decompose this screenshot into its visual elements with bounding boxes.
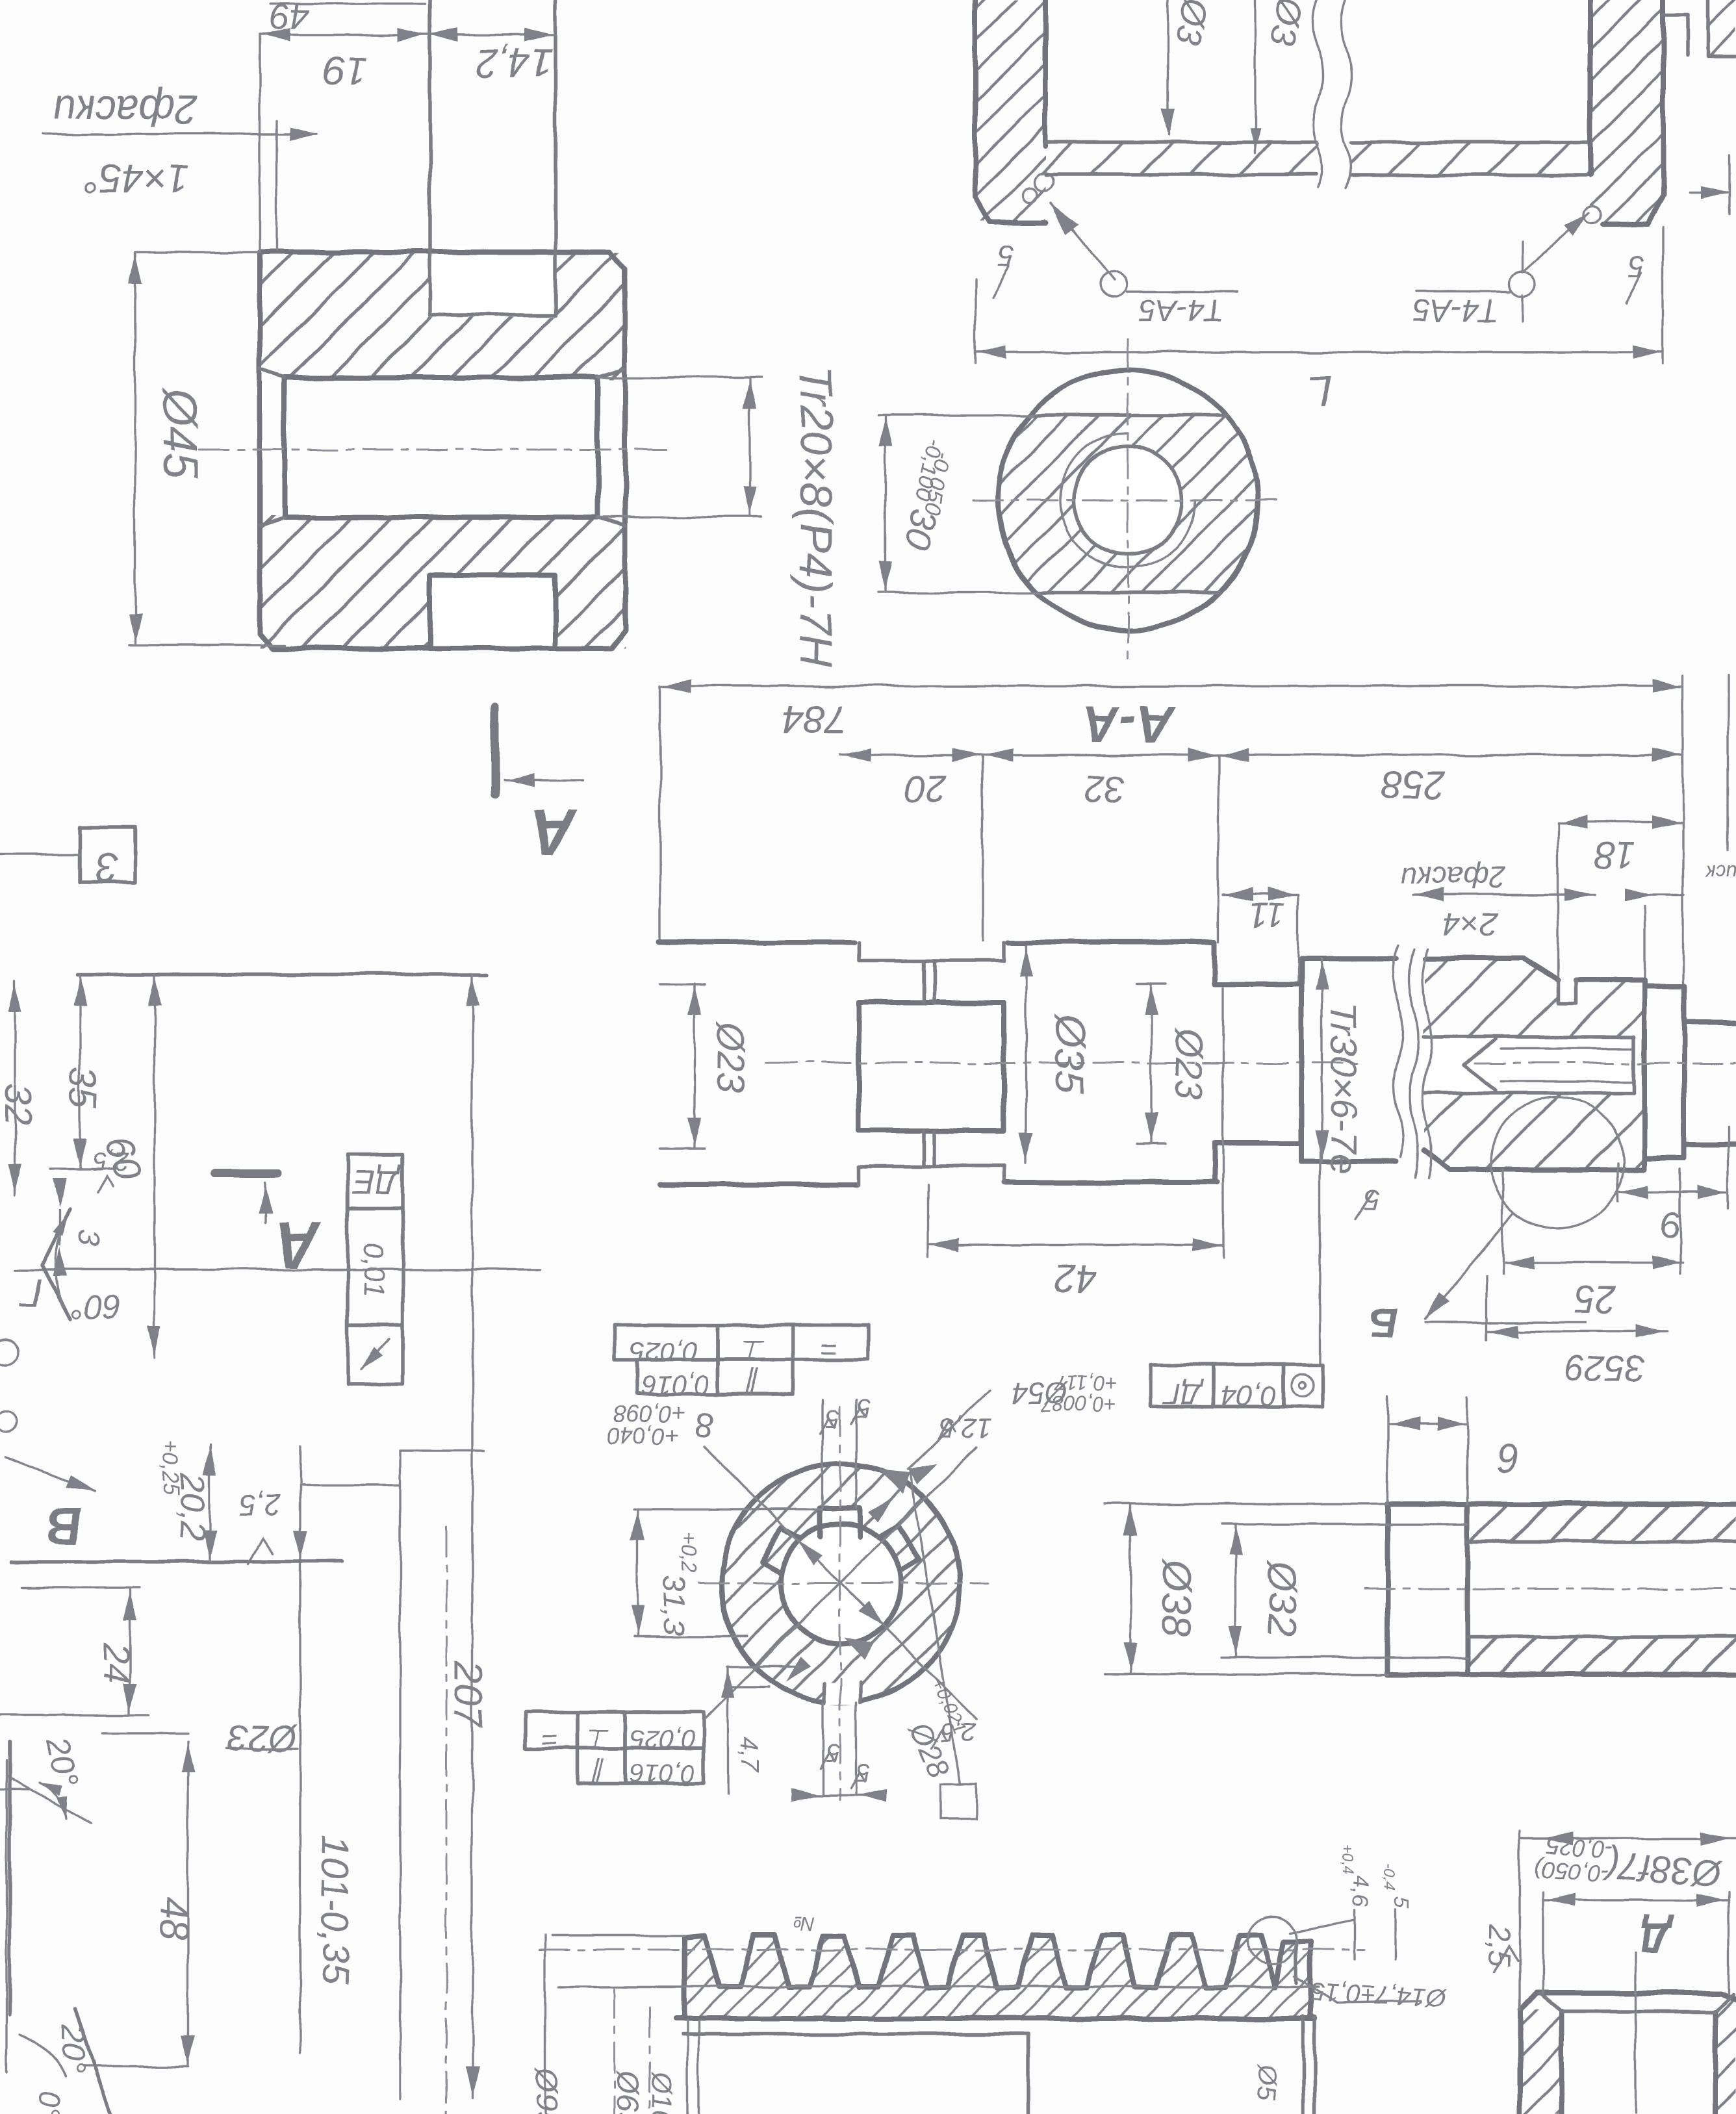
thread relief in nut	[1632, 1037, 1636, 1093]
svg-text:L: L	[1308, 366, 1333, 416]
svg-text:+0,040: +0,040	[607, 1423, 679, 1449]
svg-text:4,7: 4,7	[735, 1736, 763, 1773]
svg-text:=: =	[821, 1332, 838, 1366]
bushing centerline	[1634, 1954, 1636, 2114]
shaft neck lines	[859, 959, 1004, 963]
svg-text:0,016: 0,016	[641, 1370, 710, 1401]
dimension 9	[1618, 1191, 1728, 1193]
svg-text:5: 5	[825, 1738, 840, 1767]
svg-text:Ø63: Ø63	[610, 2069, 645, 2114]
dimension D23 (right portion)	[1150, 984, 1152, 1143]
screw channel inside nut	[1424, 1037, 1634, 1093]
dimension 30 h (disc)	[884, 415, 886, 592]
svg-text:A-A: A-A	[1082, 696, 1175, 754]
svg-text:14,2: 14,2	[476, 40, 554, 85]
svg-text:5: 5	[856, 1758, 871, 1787]
rod outline	[1388, 1501, 1736, 1507]
tolerance frame DE (vertical)	[348, 1154, 403, 1208]
leader D54 upper right	[908, 1390, 989, 1470]
svg-text:Ø38: Ø38	[1154, 1559, 1199, 1636]
leader circle T4-A5 left	[1100, 271, 1126, 297]
solid arrow on bore bottom	[845, 1637, 874, 1661]
part: rack with trapezoidal teeth (hatched)	[684, 1935, 1315, 2018]
svg-text:35: 35	[62, 1067, 104, 1109]
svg-text:20: 20	[904, 767, 947, 809]
shaft right step to D23	[1212, 942, 1217, 984]
svg-text:+0,117: +0,117	[1054, 1371, 1118, 1395]
dimension D45 (left)	[134, 252, 136, 645]
collar step right of nut	[1644, 986, 1684, 1158]
svg-text:11: 11	[1249, 896, 1285, 935]
centerline of bushing bore	[199, 449, 669, 451]
dimension 207 (vertical)	[471, 974, 473, 2099]
dimension 3 (small)	[58, 1210, 60, 1245]
svg-text:Ø32: Ø32	[1259, 1559, 1304, 1636]
section plane arrow A (upper)	[491, 707, 500, 795]
nut break wavy left edge	[1409, 949, 1419, 1178]
dimension Tr30x6-7e arrows	[1320, 959, 1322, 1162]
svg-text:⊥: ⊥	[741, 1334, 766, 1366]
fillet circle right	[1585, 206, 1602, 223]
part: end view disc with bore (hatched circle)	[994, 415, 1262, 593]
svg-text:2фаски: 2фаски	[1401, 861, 1505, 895]
svg-text:1×45°: 1×45°	[83, 156, 190, 201]
inner bore extension line	[1254, 0, 1256, 153]
svg-text:-0,050): -0,050)	[1534, 1855, 1610, 1887]
hub centerlines	[698, 1583, 988, 1585]
svg-text:=: =	[541, 1724, 557, 1755]
collar block on shaft	[859, 1002, 1004, 1130]
part: bushing cross-section (top-left), hatched body	[260, 252, 625, 379]
svg-text:ДЕ: ДЕ	[351, 1163, 402, 1201]
hub keyway top	[820, 1508, 860, 1536]
tube wall hatched strip	[1033, 142, 1319, 175]
dimension 42	[928, 1243, 1223, 1245]
svg-text:4,6: 4,6	[1347, 1876, 1372, 1907]
svg-text:5: 5	[1389, 1896, 1414, 1909]
left part top edge line	[77, 973, 487, 976]
tolerance frame lower (0,025 / 0,016)	[525, 1712, 577, 1748]
dimension 19 / 14,2 (top)	[260, 34, 555, 36]
svg-text:+0,0087: +0,0087	[1040, 1392, 1117, 1416]
dimension 18	[1558, 821, 1683, 823]
dimension D38	[1129, 1504, 1131, 1674]
svg-text:Т4-А5: Т4-А5	[1412, 293, 1498, 327]
svg-text:784: 784	[782, 698, 847, 741]
svg-text:0,025: 0,025	[630, 1336, 698, 1367]
dimension 24	[129, 1589, 131, 1714]
svg-text:207: 207	[446, 1660, 491, 1729]
svg-text:ДГ: ДГ	[1162, 1378, 1203, 1410]
dimension row 20 / 32 / 258	[840, 754, 1683, 756]
centerline through nut	[1475, 1062, 1736, 1064]
hub keyway lower-right	[879, 1525, 919, 1572]
svg-text:∥: ∥	[591, 1759, 606, 1789]
svg-text:9: 9	[1661, 1205, 1681, 1246]
svg-text:25: 25	[1574, 1278, 1616, 1320]
svg-text:Ø5: Ø5	[1251, 2063, 1280, 2100]
svg-text:Д: Д	[1640, 1914, 1674, 1962]
svg-text:+0,25: +0,25	[159, 1439, 183, 1495]
partial upper dimension line at page top	[270, 3, 426, 5]
svg-text:+0,2: +0,2	[678, 1532, 701, 1573]
left part edge vertical	[399, 1451, 401, 2099]
svg-text:Т4-А5: Т4-А5	[1138, 293, 1223, 327]
dimension D23 (left portion)	[693, 984, 695, 1149]
svg-text:101-0,35: 101-0,35	[314, 1836, 356, 1985]
svg-text:∥: ∥	[745, 1368, 761, 1399]
dimension 32 (left edge)	[14, 981, 16, 1195]
groove double lines lower	[921, 1130, 925, 1166]
disc flats (chords)	[1030, 413, 1226, 417]
dimension Tr20x8(P4)-7H (right)	[748, 377, 750, 517]
svg-text:12,5: 12,5	[939, 1413, 992, 1444]
svg-text:3: 3	[71, 1229, 105, 1247]
dimension 25	[1503, 1261, 1683, 1263]
svg-text:Tr20×8(P4)-7H: Tr20×8(P4)-7H	[791, 366, 841, 667]
view box 3	[80, 827, 135, 882]
part: tube housing section, left hatched wall	[975, 0, 1045, 221]
svg-text:5: 5	[998, 239, 1015, 273]
dimension 11	[1223, 893, 1298, 895]
svg-text:Ø16: Ø16	[646, 2070, 678, 2114]
angle 20deg lower	[75, 2009, 110, 2114]
thread shoulder face	[1299, 959, 1304, 1162]
svg-text:2,5: 2,5	[1483, 1924, 1516, 1967]
svg-text:49: 49	[269, 0, 309, 38]
angle 60deg with letter G	[42, 1208, 70, 1319]
svg-text:5: 5	[1364, 1183, 1380, 1215]
svg-text:2фаски: 2фаски	[53, 87, 198, 134]
groove double lines upper	[921, 961, 925, 1002]
svg-text:19: 19	[323, 48, 368, 93]
svg-text:Ø23: Ø23	[1168, 1027, 1210, 1100]
svg-text:Г: Г	[19, 1271, 43, 1314]
svg-text:2,5: 2,5	[239, 1488, 281, 1522]
leader and letter B detail	[1426, 1214, 1514, 1319]
svg-text:№: №	[793, 1913, 815, 1934]
right wall top chamfer piece	[1663, 15, 1688, 55]
bushing bore	[285, 375, 598, 380]
dimension D (lower)	[1543, 1899, 1729, 1901]
hub bottom outer notch	[824, 1683, 860, 1705]
dimension 101-0,35	[299, 1447, 301, 2053]
extension lines from shaft to dims	[982, 755, 984, 941]
dimension 8 keyway width	[804, 1794, 875, 1796]
dimension 35 (left)	[79, 974, 81, 1169]
dimension D32	[1234, 1524, 1236, 1657]
disc centerlines	[973, 500, 1285, 502]
svg-text:32: 32	[1084, 767, 1127, 809]
svg-text:5: 5	[825, 1405, 840, 1433]
rack pitch line	[539, 1949, 1364, 1951]
svg-text:48: 48	[153, 1896, 196, 1940]
svg-text:Tr30×6-7е: Tr30×6-7е	[1322, 1002, 1364, 1175]
fillet circle left	[1034, 173, 1053, 191]
svg-text:18: 18	[1595, 835, 1635, 876]
svg-text:2,5: 2,5	[939, 1718, 976, 1746]
rectangle with 48 dimension	[103, 1732, 188, 1734]
svg-text:31,3: 31,3	[657, 1574, 691, 1635]
rod centerline	[1364, 1588, 1736, 1590]
rod bore lines	[1468, 1540, 1736, 1544]
angle 20deg upper	[6, 1776, 91, 1823]
svg-text:В: В	[47, 1497, 83, 1555]
dimension 3529	[1487, 1330, 1668, 1332]
detail circle B	[1491, 1097, 1624, 1229]
screw rod to page edge	[1684, 1020, 1736, 1025]
rack bore rectangle	[1027, 2034, 1030, 2114]
leader line to tolerance frame	[1319, 1145, 1321, 1364]
svg-text:2×4: 2×4	[1443, 906, 1499, 942]
rack tooth groove at right end	[1294, 1941, 1298, 1983]
svg-text:Ø45: Ø45	[153, 387, 207, 480]
svg-text:Ø23: Ø23	[709, 1021, 752, 1093]
svg-text:6: 6	[1497, 1436, 1520, 1481]
tolerance frame position 0,04 DG	[1151, 1364, 1213, 1407]
dimension D38f7 (upper)	[1520, 1837, 1736, 1839]
svg-text:⊥: ⊥	[587, 1724, 611, 1754]
svg-text:2,5: 2,5	[92, 1147, 129, 1176]
svg-text:32: 32	[0, 1084, 39, 1126]
svg-text:Б: Б	[1369, 1299, 1398, 1346]
thread break wavy lines	[1393, 945, 1403, 1157]
tooth detail circle	[1248, 1917, 1296, 1965]
long edge line	[14, 1268, 540, 1270]
svg-text:-0,4: -0,4	[1380, 1864, 1398, 1891]
dimension 20,2+0,25	[209, 1444, 211, 1562]
shaft centerline	[767, 1062, 1364, 1064]
svg-text:0,025: 0,025	[630, 1724, 695, 1753]
svg-text:8: 8	[695, 1406, 714, 1444]
svg-text:Ø3: Ø3	[1168, 0, 1215, 48]
bushing bottom notch	[430, 575, 555, 648]
svg-text:24: 24	[96, 1642, 137, 1683]
svg-text:258: 258	[1382, 763, 1446, 806]
hub bore circle	[780, 1523, 901, 1644]
inner bore arrow (down)	[1167, 0, 1169, 135]
part ledge lines	[12, 1560, 342, 1564]
svg-text:42: 42	[1054, 1258, 1097, 1301]
svg-text:5: 5	[856, 1394, 871, 1423]
dimension 60 (left)	[153, 974, 155, 1358]
svg-text:иск: иск	[1705, 861, 1736, 885]
part: tube housing right hatched wall	[1590, 0, 1663, 224]
svg-text:Ø3: Ø3	[1263, 0, 1310, 48]
leader D28 with solid arrow and square	[910, 1473, 960, 1784]
dimension 784 (top)	[660, 685, 1683, 687]
hub keyway lower-left	[761, 1527, 800, 1573]
svg-text:0°: 0°	[32, 2091, 66, 2114]
svg-text:Ø95: Ø95	[529, 2068, 563, 2114]
thread arc in disc bore	[1060, 433, 1195, 568]
svg-text:Ø38f7(: Ø38f7(	[1601, 1844, 1724, 1894]
nut locking slot	[1558, 980, 1576, 1003]
svg-text:3529: 3529	[1564, 1348, 1646, 1389]
threaded section Tr30x6 outer	[1301, 956, 1396, 961]
dimension D35	[1025, 945, 1027, 1163]
section plane arrow A (left lower)	[215, 1169, 277, 1178]
bushing top slot	[430, 0, 555, 315]
view arrow B	[5, 1457, 95, 1492]
svg-text:Ø35: Ø35	[1047, 1013, 1093, 1093]
svg-text:5: 5	[1627, 250, 1644, 284]
svg-text:0,04: 0,04	[1221, 1379, 1277, 1411]
nut outline	[1424, 958, 1558, 980]
hub outer circle	[721, 1464, 960, 1703]
left bottom slanted edge	[0, 1789, 30, 1790]
break wavy lines	[1312, 0, 1323, 188]
bushing outline	[260, 252, 625, 648]
part: bushing section (bottom-right)	[1520, 2009, 1562, 2114]
tooth detail leaders and labels 4,6 / 5	[1290, 1920, 1355, 1933]
svg-text:0,016: 0,016	[630, 1759, 695, 1788]
leader circle T4-A5 right	[1510, 271, 1536, 297]
svg-text:+0,4: +0,4	[1338, 1844, 1356, 1874]
dimension 6 (rod end)	[1388, 1423, 1468, 1425]
hub diagonal centerlines	[704, 1447, 977, 1719]
svg-text:60°: 60°	[71, 1288, 122, 1325]
far top-right corner hatched piece	[1708, 0, 1736, 55]
far right dimension arrow	[1689, 191, 1730, 193]
svg-text:Ø23: Ø23	[228, 1718, 298, 1759]
svg-text:A: A	[530, 796, 578, 869]
part: keyed hub end view (hatched circle with keyways)	[715, 1458, 971, 1712]
dimension L (overall length)	[975, 351, 1663, 353]
svg-text:3: 3	[96, 845, 119, 891]
rack left dimension lines	[544, 1935, 546, 2114]
part: nut on threaded shaft (hatched)	[1424, 958, 1644, 1169]
rack body line	[676, 2016, 1303, 2021]
dimension 31,3+0,2	[636, 1509, 638, 1636]
shaft D35 outer lines	[659, 939, 854, 945]
rack root line	[559, 1985, 1319, 1987]
tolerance frame perpendicular 0,025 / parallel 0,016 (upper)	[615, 1325, 718, 1360]
part: rod with bore (right middle), hatched walls	[1468, 1504, 1736, 1542]
dimension 4,7	[726, 1666, 728, 1795]
keyway width extension lines	[821, 1400, 823, 1508]
